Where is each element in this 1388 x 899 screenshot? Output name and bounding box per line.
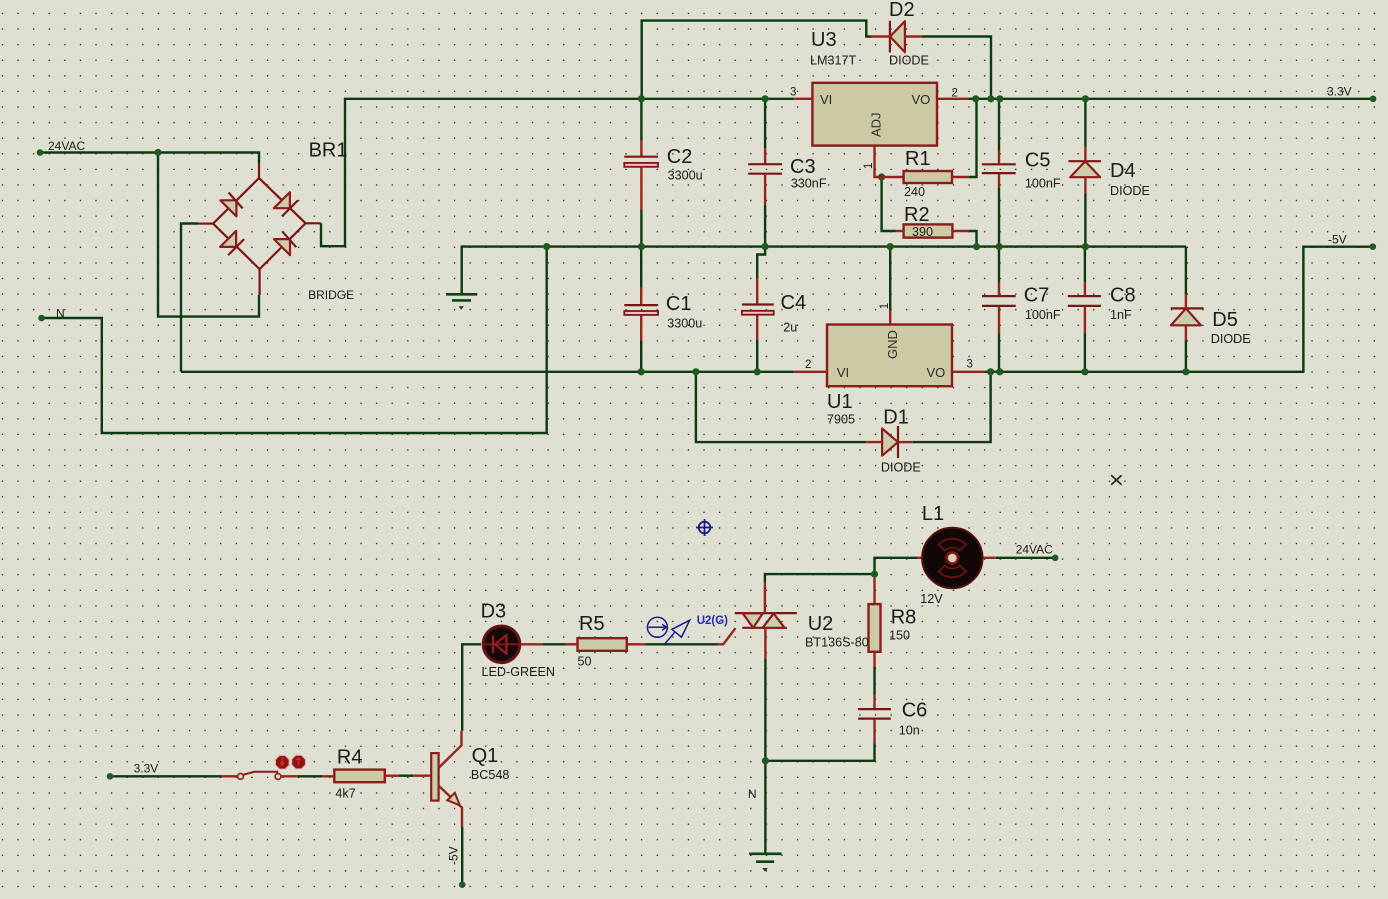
svg-text:DIODE: DIODE — [1211, 332, 1251, 346]
svg-text:3: 3 — [790, 87, 796, 99]
svg-text:1: 1 — [879, 303, 891, 309]
svg-text:3300u: 3300u — [668, 169, 703, 183]
svg-text:N: N — [56, 307, 65, 321]
svg-text:1: 1 — [863, 163, 875, 169]
svg-text:2u: 2u — [783, 321, 797, 335]
svg-text:D4: D4 — [1110, 160, 1136, 182]
svg-text:BT136S-80: BT136S-80 — [805, 635, 869, 649]
svg-text:U2: U2 — [808, 613, 834, 635]
svg-text:24VAC: 24VAC — [48, 139, 85, 153]
svg-text:LM317T: LM317T — [810, 54, 857, 68]
svg-text:100nF: 100nF — [1025, 177, 1061, 191]
svg-text:ADJ: ADJ — [869, 112, 884, 137]
svg-text:C8: C8 — [1110, 285, 1136, 307]
svg-text:24VAC: 24VAC — [1016, 543, 1053, 557]
svg-text:L1: L1 — [922, 503, 944, 525]
svg-text:U1: U1 — [827, 391, 853, 413]
svg-text:3: 3 — [967, 359, 973, 371]
svg-text:N: N — [748, 787, 757, 801]
svg-text:D2: D2 — [889, 0, 915, 21]
svg-text:VO: VO — [912, 92, 931, 107]
svg-text:C1: C1 — [666, 293, 692, 315]
svg-text:U2(G): U2(G) — [697, 615, 728, 627]
svg-text:100nF: 100nF — [1025, 308, 1061, 322]
svg-text:BRIDGE: BRIDGE — [308, 288, 354, 302]
svg-text:C7: C7 — [1024, 285, 1050, 307]
svg-text:2: 2 — [805, 359, 811, 371]
svg-text:VI: VI — [820, 92, 832, 107]
svg-text:GND: GND — [885, 330, 900, 359]
svg-text:D3: D3 — [481, 601, 507, 623]
svg-text:330nF: 330nF — [791, 177, 827, 191]
svg-text:3300u: 3300u — [667, 317, 702, 331]
svg-text:VO: VO — [927, 365, 946, 380]
svg-text:R5: R5 — [579, 613, 605, 635]
svg-text:R4: R4 — [337, 747, 363, 769]
svg-text:C4: C4 — [781, 292, 807, 314]
svg-text:7905: 7905 — [827, 413, 855, 427]
svg-text:VI: VI — [837, 365, 849, 380]
svg-text:BC548: BC548 — [471, 768, 510, 782]
svg-text:3.3V: 3.3V — [134, 762, 159, 776]
svg-text:2: 2 — [952, 88, 958, 100]
svg-text:C5: C5 — [1025, 150, 1051, 172]
svg-text:C3: C3 — [790, 156, 816, 178]
svg-text:C2: C2 — [667, 146, 693, 168]
svg-text:1nF: 1nF — [1110, 308, 1132, 322]
svg-text:C6: C6 — [902, 700, 928, 722]
svg-text:12V: 12V — [920, 592, 943, 606]
svg-text:D5: D5 — [1212, 309, 1238, 331]
svg-text:DIODE: DIODE — [881, 461, 921, 475]
svg-text:4k7: 4k7 — [335, 787, 355, 801]
svg-text:Q1: Q1 — [472, 745, 499, 767]
svg-text:-5V: -5V — [447, 846, 461, 865]
svg-text:DIODE: DIODE — [889, 54, 929, 68]
svg-text:150: 150 — [889, 629, 910, 643]
svg-text:240: 240 — [904, 185, 925, 199]
svg-text:U3: U3 — [811, 29, 837, 51]
svg-text:D1: D1 — [883, 407, 909, 429]
svg-text:3.3V: 3.3V — [1327, 85, 1352, 99]
svg-text:-5V: -5V — [1328, 233, 1347, 247]
svg-text:DIODE: DIODE — [1110, 184, 1150, 198]
svg-text:BR1: BR1 — [309, 140, 348, 162]
svg-text:R1: R1 — [905, 148, 931, 170]
svg-text:R2: R2 — [904, 204, 930, 226]
svg-text:R8: R8 — [891, 607, 917, 629]
svg-text:390: 390 — [912, 225, 933, 239]
svg-text:50: 50 — [578, 655, 592, 669]
svg-text:LED-GREEN: LED-GREEN — [482, 665, 555, 679]
svg-text:10n: 10n — [899, 724, 920, 738]
